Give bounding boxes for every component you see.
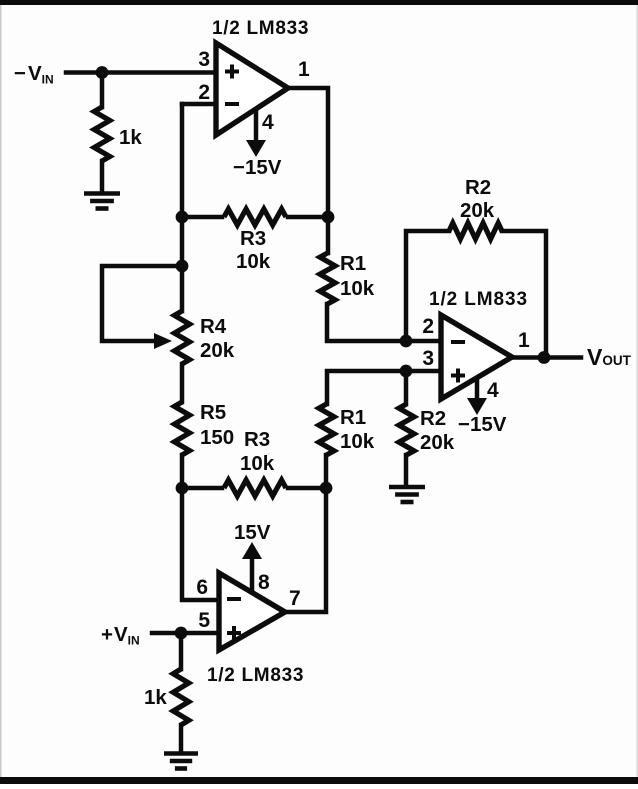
resistor R3 10k (top) — [224, 209, 286, 225]
svg-text:10k: 10k — [340, 277, 375, 300]
svg-text:1: 1 — [298, 58, 310, 81]
svg-text:1: 1 — [518, 329, 530, 352]
svg-text:20k: 20k — [200, 339, 235, 362]
node VOUT — [538, 351, 551, 364]
svg-text:1/2 LM833: 1/2 LM833 — [207, 665, 304, 686]
op-amp U2 (output 1/2 LM833) — [441, 315, 512, 399]
wire 1k bottom-left resistor leads — [179, 633, 184, 751]
svg-text:1/2 LM833: 1/2 LM833 — [429, 289, 528, 310]
svg-text:5: 5 — [198, 609, 210, 632]
svg-text:1k: 1k — [119, 126, 142, 149]
resistor 1k (bottom left) — [173, 669, 189, 725]
svg-text:10k: 10k — [236, 250, 271, 273]
A1 pin 4 supply arrow — [254, 110, 259, 141]
A2 minus input sign — [227, 597, 241, 601]
wire R2 ground leg — [404, 371, 409, 484]
svg-text:3: 3 — [422, 347, 434, 370]
svg-text:4: 4 — [487, 379, 499, 402]
node A2 out / R3 / R1 — [320, 482, 333, 495]
node -VIN junction — [96, 66, 109, 79]
resistor R2 20k (feedback) — [449, 223, 502, 239]
svg-text:−15V: −15V — [233, 156, 282, 179]
svg-text:20k: 20k — [420, 431, 455, 454]
wire A1 output pin 1 down to R3 node — [288, 88, 328, 217]
resistor R1 10k (top) — [320, 253, 335, 304]
node bottom R3 left — [176, 482, 189, 495]
A1 plus input sign — [225, 65, 239, 79]
svg-text:10k: 10k — [340, 430, 375, 453]
svg-text:10k: 10k — [240, 452, 275, 475]
ground (R2 leg) — [389, 485, 425, 490]
svg-text:15V: 15V — [234, 521, 271, 544]
resistor R2 20k (to ground) — [399, 404, 414, 455]
svg-text:R1: R1 — [340, 252, 366, 275]
node A1 out / R3 / R1 — [322, 211, 335, 224]
node A3 pin3 / R2 gnd — [400, 365, 413, 378]
svg-text:20k: 20k — [460, 199, 495, 222]
node pot wiper tie — [176, 260, 189, 273]
wire top R3 horizontal net — [182, 215, 328, 220]
resistor 1k (top left) — [94, 107, 110, 161]
wire left rail — [182, 104, 219, 600]
wire +VIN input to pin 5 — [152, 631, 219, 636]
A3 minus input sign — [451, 340, 465, 344]
svg-text:R3: R3 — [244, 428, 270, 451]
svg-text:R2: R2 — [420, 407, 446, 430]
wire -VIN input to pin 3 — [66, 70, 216, 75]
node top R3 left — [176, 211, 189, 224]
ground (bottom-left 1k) — [164, 751, 198, 756]
A2 pin 8 supply arrow — [250, 558, 255, 592]
A3 pin 4 supply arrow — [475, 379, 480, 399]
op-amp U1B (bottom 1/2 LM833) — [219, 573, 285, 650]
svg-text:−15V: −15V — [458, 413, 507, 436]
resistor R5 150 — [174, 402, 189, 455]
svg-text:R4: R4 — [200, 315, 227, 338]
wire A3 pin 3 net — [327, 371, 441, 404]
svg-text:R3: R3 — [240, 227, 266, 250]
svg-text:1k: 1k — [144, 686, 167, 709]
wire A3 output to VOUT — [512, 355, 581, 360]
node A3 pin2 / R2 feedback — [400, 335, 413, 348]
resistor R1 10k (bottom) — [319, 404, 334, 455]
wire bottom R3 horizontal net — [182, 486, 326, 491]
svg-text:4: 4 — [262, 111, 274, 134]
svg-text:2: 2 — [198, 81, 210, 104]
bottom border bar — [0, 777, 638, 784]
svg-text:2: 2 — [422, 315, 434, 338]
A3 plus input sign — [451, 369, 465, 383]
wire R2 feedback loop A3 — [406, 231, 546, 358]
wire R1 top column to A3 pin 2 — [327, 217, 441, 341]
node +VIN junction — [175, 627, 188, 640]
A1 minus input sign — [225, 102, 239, 106]
top border bar — [0, 0, 638, 5]
svg-text:3: 3 — [198, 48, 210, 71]
ground (top-left 1k) — [84, 191, 120, 196]
pot wiper arrowhead — [154, 333, 172, 349]
potentiometer R4 20k — [174, 311, 189, 364]
svg-text:R1: R1 — [340, 406, 366, 429]
svg-text:150: 150 — [200, 426, 234, 449]
A2 plus input sign — [227, 626, 241, 640]
wire pin 2 to left rail — [182, 102, 216, 107]
svg-text:R5: R5 — [200, 401, 226, 424]
svg-text:7: 7 — [289, 587, 301, 610]
svg-text:R2: R2 — [465, 176, 491, 199]
wire hook pot wiper — [102, 266, 182, 341]
svg-text:8: 8 — [258, 571, 270, 594]
op-amp U1A (top 1/2 LM833) — [216, 43, 288, 135]
svg-text:6: 6 — [196, 576, 208, 599]
resistor R3 10k (bottom) — [224, 480, 286, 496]
wire 1k top-left resistor leads — [100, 73, 105, 192]
svg-text:1/2 LM833: 1/2 LM833 — [212, 18, 309, 39]
wire bottom R1 to A2 output node — [285, 455, 326, 612]
